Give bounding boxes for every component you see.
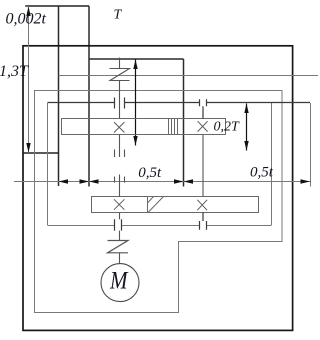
svg-text:0,5t: 0,5t — [250, 165, 274, 181]
shaft stem below lower gear left — [119, 213, 121, 220]
dimension arrows on centerline — [59, 179, 69, 183]
wire vertical extension line x=58.5 — [58, 6, 60, 186]
dimension extension line right x=310.5 — [310, 103, 312, 187]
dimension arrow vertical x=246.5 (0,2T) — [246, 104, 248, 151]
gear mesh cross upper-right — [198, 121, 208, 131]
shaft II horizontal at y=75.5 — [59, 75, 319, 77]
clutch on bottom line right (stem + bars) — [200, 213, 207, 230]
casing outer box — [23, 46, 293, 331]
half clutch below upper gear — [115, 135, 125, 158]
shaft stem to motor — [119, 253, 121, 264]
shaft I horizontal at y=102.5 — [48, 102, 311, 104]
gear block upper — [62, 119, 226, 135]
svg-text:T: T — [114, 8, 123, 23]
shaft from zigzag down to gear — [119, 81, 121, 119]
elastic coupling (zigzag) upper — [110, 69, 130, 81]
clutch bars on shaft I right + stem — [200, 99, 207, 118]
gear mesh cross lower-right — [197, 200, 207, 210]
clutch bars on bottom line left — [115, 219, 122, 230]
clutch bars on shaft I left — [115, 98, 125, 109]
hatch block lower — [148, 197, 164, 213]
shaft stem to lower zigzag — [119, 231, 121, 241]
shaft right vertical through gears — [202, 135, 204, 197]
wire shelf at y=153 — [23, 152, 59, 154]
hatch block upper — [169, 119, 178, 135]
wire top reference line — [25, 5, 89, 7]
gear block lower — [92, 197, 259, 213]
motor M circle — [101, 264, 139, 302]
wire inverted-U top edge y=59 — [89, 58, 184, 60]
casing inner box bottom with clutch gaps — [48, 225, 272, 227]
svg-text:0,5t: 0,5t — [138, 165, 162, 181]
casing middle stepped polygon — [35, 91, 283, 313]
shaft stem above elastic coupling — [119, 58, 121, 69]
gear mesh cross lower-left — [114, 199, 124, 209]
elastic coupling (zigzag) lower — [108, 241, 129, 253]
wire vertical extension line x=89 — [88, 6, 90, 187]
centerline dimension y=181.5 — [14, 181, 310, 183]
wire vertical extension line x=183.5 — [183, 59, 185, 187]
half clutch above lower gear — [115, 175, 125, 197]
dimension line vertical x=28.5 (0,002t / 1,3T) — [28, 6, 30, 153]
casing inner box sides — [48, 103, 272, 225]
svg-text:M: M — [109, 268, 128, 295]
svg-text:0,2T: 0,2T — [214, 120, 241, 135]
svg-text:1,3T: 1,3T — [0, 63, 29, 80]
dimension arrow vertical x=135.5 (T) — [135, 60, 137, 146]
svg-text:0,002t: 0,002t — [6, 11, 47, 28]
gear mesh cross upper-left — [114, 122, 124, 132]
